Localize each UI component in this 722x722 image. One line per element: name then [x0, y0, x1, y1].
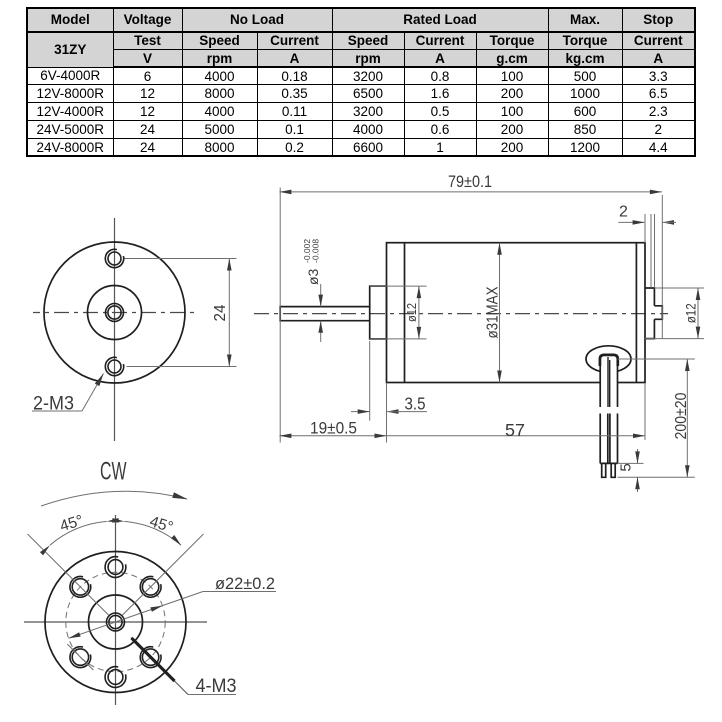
svg-text:45°: 45°	[148, 513, 175, 536]
front view: vertical centerline	[114, 218, 116, 441]
rear view: M3 tapped hole at 135 deg (thread arc)	[70, 576, 91, 597]
rear view: M3 tapped hole at 135 deg (inner circle)	[72, 579, 88, 595]
dimension 79±0.1: left extension line (shaft end), shared with 19±0.5	[279, 188, 281, 443]
side view: wire lower segments	[600, 414, 608, 464]
dimension ø12 rear boss: extension lines	[655, 287, 705, 289]
svg-text:ø12: ø12	[404, 303, 419, 322]
side view: front endbell seam line	[404, 243, 406, 383]
dimension 79±0.1: right extension line (rear stub)	[661, 195, 663, 339]
dimension 200±20: bottom extension line	[618, 476, 695, 478]
rear view: center hole inner	[109, 615, 122, 628]
rear view: through hole at y=677 inner	[108, 670, 123, 685]
side view: stripped wire ends	[602, 463, 606, 477]
dimension 24: dimension line with arrows	[228, 259, 230, 367]
label 4-M3: leader underline	[188, 694, 236, 696]
svg-text:5: 5	[618, 463, 635, 471]
dimension 2: extension lines	[644, 214, 646, 243]
dimension 2: dimension line and outside arrows	[618, 221, 644, 223]
rear view: horizontal centerline	[24, 621, 207, 623]
svg-text:19±0.5: 19±0.5	[310, 419, 357, 438]
rear view: M3 tapped hole at 45 deg (inner circle)	[142, 579, 158, 595]
rear view: center hole outer	[107, 613, 125, 631]
svg-text:ø31MAX: ø31MAX	[485, 286, 502, 339]
rear view: bolt circle ø22 (dashed)	[66, 572, 165, 671]
specification table	[26, 7, 696, 157]
side view: motor body	[387, 243, 646, 383]
side view: shaft outline	[280, 307, 370, 321]
front view: motor outer circle (ø31 body)	[44, 242, 185, 383]
side view: front bearing boss	[370, 286, 387, 339]
side view: horizontal centerline (dashed)	[254, 313, 668, 315]
dimension ø12 rear boss: dimension line	[697, 288, 699, 339]
front view: shaft hole inner circle	[108, 306, 121, 319]
front view: horizontal centerline (dashed)	[33, 312, 197, 314]
front view: M3 tapped hole at y=258.5 (inner circle)	[108, 252, 121, 265]
svg-text:ø12: ø12	[684, 303, 699, 323]
dimension ø12 front boss: dimension line	[418, 286, 420, 339]
dimension 200±20: dimension line	[686, 359, 688, 477]
dimension ø12 front boss: extension lines	[370, 285, 427, 287]
dimension 45 deg left: arc with arrows	[50, 521, 107, 545]
side view: terminal cap heavy outline	[600, 355, 618, 366]
svg-text:ø22±0.2: ø22±0.2	[215, 575, 275, 593]
label 4-M3: leader diagonal	[131, 638, 188, 695]
rear view: through hole at y=567 inner	[108, 560, 123, 575]
rear view: lower-left hole slash centerline	[67, 644, 93, 670]
rear view: through hole at y=567 thread arc	[105, 557, 126, 578]
rear view: vertical centerline	[115, 515, 117, 705]
svg-text:57: 57	[505, 420, 525, 440]
front view: M3 tapped hole at y=366.5 (inner circle)	[108, 360, 121, 373]
front view: front boss circle	[88, 286, 142, 340]
rear view: M3 tapped hole at 45 deg (thread arc)	[140, 576, 161, 597]
svg-text:24: 24	[212, 304, 229, 321]
svg-text:3.5: 3.5	[405, 394, 426, 414]
side view: rear shaft stub	[654, 306, 662, 320]
dimension 200±20: top extension line	[618, 358, 695, 360]
rear view: M3 tapped hole at 225 deg (inner circle)	[72, 649, 88, 665]
rear view: lower-right hole slash centerline	[138, 644, 164, 670]
dimension 3.5: extension line from boss	[369, 341, 371, 421]
dimension ø31MAX: dimension line	[499, 243, 501, 383]
dimension 45 deg right: arc with arrows	[124, 521, 181, 545]
dimension 24: bottom extension line	[127, 366, 237, 368]
svg-text:4-M3: 4-M3	[196, 676, 237, 697]
svg-text:-0.008: -0.008	[311, 239, 321, 263]
rear view: M3 tapped hole at 315 deg (thread arc)	[140, 647, 161, 668]
label 2-M3: leader diagonal with arrowhead	[82, 374, 104, 412]
svg-text:CW: CW	[100, 458, 127, 486]
rear view: through hole at y=677 thread arc	[105, 667, 126, 688]
rear view: boss circle	[89, 595, 143, 649]
side view: rear cap seam line	[635, 243, 637, 383]
side view: terminal ellipse	[586, 346, 631, 372]
rear view: M3 tapped hole at 315 deg (inner circle)	[142, 649, 158, 665]
dimension ø22±0.2: leader underline	[203, 591, 276, 593]
rear view: motor outer circle	[45, 552, 186, 693]
side view: body-left extension line down	[386, 383, 388, 443]
rear view: upper-left 45 deg radial centerline	[28, 534, 109, 615]
front view: M3 tapped hole at y=366.5 (thread arc)	[105, 357, 123, 375]
CW rotation arc with arrowhead	[41, 491, 187, 506]
dimension 3.5: dimension line with outside arrows	[351, 411, 370, 413]
dimension 5: extension line	[618, 462, 644, 464]
dimension 24: top extension line	[125, 258, 237, 260]
dimension ø22±0.2: diameter line with arrows	[69, 592, 203, 639]
label 2-M3: leader underline	[32, 410, 82, 412]
svg-text:79±0.1: 79±0.1	[448, 172, 492, 191]
dimension 5: outside arrows	[637, 449, 639, 463]
side view: rear bearing boss	[645, 288, 654, 339]
svg-text:200±20: 200±20	[673, 392, 690, 439]
side view: pin split lines	[608, 357, 610, 407]
side view: body-right extension line down	[644, 384, 646, 440]
label 4-M3: thick leader arrow segment through hole	[132, 638, 175, 681]
front view: shaft hole outer circle	[106, 304, 124, 322]
dimension ø3: vertical line and outside arrows	[320, 284, 322, 307]
svg-text:ø3: ø3	[305, 268, 321, 285]
dimension 19±0.5: dimension line	[279, 435, 386, 437]
side view: terminal pin pair with rounded cap	[600, 355, 617, 407]
rear view: M3 tapped hole at 225 deg (thread arc)	[70, 647, 91, 668]
svg-text:45°: 45°	[58, 512, 85, 535]
dimension 79±0.1: dimension line	[279, 191, 662, 193]
front view: M3 tapped hole at y=258.5 (thread arc)	[105, 249, 123, 267]
rear view: upper-right 45 deg radial centerline	[123, 534, 204, 615]
svg-text:2: 2	[619, 204, 628, 221]
dimension 57: dimension line	[387, 435, 646, 437]
